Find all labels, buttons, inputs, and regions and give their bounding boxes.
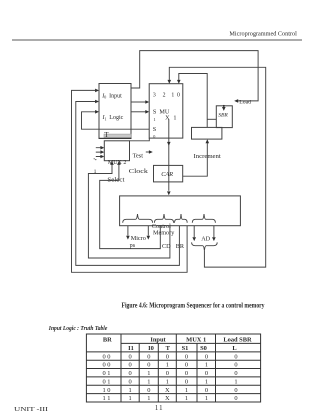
- svg-text:1 1: 1 1: [103, 395, 111, 402]
- svg-text:0: 0: [128, 353, 131, 360]
- wire BR bit feedback to input I0: [72, 90, 188, 272]
- arrowhead mid (below MUX1): [167, 142, 171, 146]
- svg-text:X: X: [165, 115, 170, 122]
- svg-text:I1: I1: [128, 345, 134, 352]
- horizontal lines: [121, 342, 261, 344]
- svg-text:Increment: Increment: [194, 153, 222, 160]
- incrementer box: [192, 127, 222, 139]
- svg-text:CAR: CAR: [161, 171, 173, 178]
- svg-text:T: T: [166, 345, 171, 352]
- svg-text:S: S: [153, 126, 157, 133]
- wire CD feedback to MUX2 select a: [88, 165, 169, 258]
- svg-text:0: 0: [166, 370, 169, 377]
- svg-text:1: 1: [147, 370, 150, 377]
- wire long select line with loop into input logic: [82, 112, 150, 129]
- CAR box: [154, 165, 183, 182]
- svg-text:0 0: 0 0: [103, 362, 111, 369]
- arrowhead up into incrementer: [206, 139, 210, 143]
- wire Load path (Input logic L output to SBR load): [131, 51, 258, 101]
- svg-text:1: 1: [185, 395, 188, 402]
- wire step MUX1 bottom-left to MUX2 top edge: [130, 138, 150, 141]
- header rule: [12, 39, 302, 41]
- svg-text:3: 3: [153, 93, 156, 99]
- svg-text:0: 0: [205, 387, 208, 394]
- brace CD field: [154, 214, 173, 223]
- svg-text:Test: Test: [133, 152, 144, 159]
- svg-text:1: 1: [128, 395, 131, 402]
- svg-text:Clock: Clock: [129, 168, 149, 175]
- svg-text:SBR: SBR: [218, 113, 228, 119]
- table header row 2: [128, 345, 236, 352]
- svg-text:0: 0: [185, 353, 188, 360]
- table header row 1: [103, 336, 252, 343]
- svg-text:0: 0: [128, 378, 131, 385]
- svg-text:1: 1: [205, 362, 208, 369]
- svg-text:0 1: 0 1: [103, 370, 111, 377]
- input logic box: [99, 84, 131, 139]
- svg-text:0: 0: [177, 93, 180, 99]
- svg-text:CD: CD: [162, 243, 171, 250]
- load arrowhead: [234, 99, 238, 103]
- svg-text:Microprogrammed Control: Microprogrammed Control: [229, 31, 297, 38]
- svg-text:BR: BR: [103, 336, 112, 343]
- svg-text:0: 0: [185, 378, 188, 385]
- svg-text:1: 1: [147, 378, 150, 385]
- brace AD field: [192, 214, 215, 223]
- svg-text:2: 2: [163, 93, 166, 99]
- SBR internal load arrow: [223, 106, 225, 107]
- svg-text:L: L: [232, 345, 236, 352]
- svg-text:0: 0: [147, 387, 150, 394]
- svg-text:Figure 4.6: Microprogram Seque: Figure 4.6: Microprogram Sequencer for a…: [122, 302, 265, 309]
- svg-text:0: 0: [147, 353, 150, 360]
- svg-text:0 0: 0 0: [103, 353, 111, 360]
- svg-text:1: 1: [94, 169, 97, 175]
- wire incrementer output to MUX1 input 0: [179, 74, 207, 128]
- svg-text:0: 0: [234, 370, 237, 377]
- svg-text:0: 0: [234, 395, 237, 402]
- brace BR field: [175, 214, 188, 223]
- svg-text:S: S: [153, 109, 157, 116]
- MUX2 box: [104, 141, 129, 161]
- svg-text:0: 0: [128, 370, 131, 377]
- svg-text:BR: BR: [176, 243, 185, 250]
- svg-text:0: 0: [234, 362, 237, 369]
- svg-text:0 1: 0 1: [103, 378, 111, 385]
- svg-text:S1: S1: [182, 345, 189, 352]
- grey band highlight: [104, 134, 131, 137]
- arrowhead into MUX1 input 0: [177, 80, 181, 84]
- svg-text:MUX 2: MUX 2: [108, 160, 127, 166]
- svg-text:I0: I0: [148, 345, 154, 352]
- svg-text:1: 1: [205, 395, 208, 402]
- svg-text:S0: S0: [200, 345, 207, 352]
- SBR box: [216, 106, 232, 128]
- svg-text:1: 1: [166, 378, 169, 385]
- svg-text:AD: AD: [201, 236, 210, 243]
- MUX1 box: [149, 84, 183, 138]
- svg-text:0: 0: [185, 370, 188, 377]
- svg-text:11: 11: [155, 405, 164, 412]
- svg-text:0: 0: [153, 134, 155, 139]
- control memory box: [120, 196, 241, 226]
- svg-text:1: 1: [171, 93, 174, 99]
- svg-text:Select: Select: [107, 176, 124, 183]
- svg-text:I0Input: I0Input: [101, 93, 122, 99]
- svg-text:0: 0: [205, 353, 208, 360]
- table grid: [86, 334, 260, 402]
- test arrow: [146, 151, 150, 153]
- arrowhead into control memory: [167, 191, 171, 195]
- svg-text:1 0: 1 0: [103, 387, 111, 394]
- svg-text:0: 0: [234, 353, 237, 360]
- wire CAR output to incrementer input: [183, 143, 208, 176]
- outer border: [86, 334, 260, 402]
- wire CD feedback to MUX2 select b: [100, 165, 161, 249]
- svg-text:Load: Load: [239, 99, 251, 105]
- svg-text:X: X: [165, 395, 170, 402]
- svg-text:Load SBR: Load SBR: [223, 336, 252, 343]
- svg-text:I1Logic: I1Logic: [102, 115, 124, 121]
- svg-text:1: 1: [166, 362, 169, 369]
- wire BR bit feedback to input I1: [76, 102, 180, 266]
- svg-text:MUX 1: MUX 1: [186, 336, 206, 343]
- svg-text:1: 1: [205, 378, 208, 385]
- svg-text:X: X: [165, 387, 170, 394]
- AD output arrows: [194, 226, 214, 238]
- svg-text:1: 1: [173, 115, 176, 122]
- svg-text:0: 0: [185, 362, 188, 369]
- svg-text:0: 0: [205, 370, 208, 377]
- svg-text:Memory: Memory: [153, 229, 175, 236]
- svg-text:1: 1: [185, 387, 188, 394]
- brace micro-ops field: [123, 214, 153, 223]
- svg-text:0: 0: [234, 387, 237, 394]
- svg-text:ps: ps: [130, 242, 136, 249]
- wire input-logic S1 to MUX1 select: [131, 101, 146, 103]
- svg-text:Input: Input: [150, 336, 166, 343]
- arrowhead into MUX1 input 1: [168, 80, 172, 84]
- svg-text:Micro: Micro: [131, 235, 146, 242]
- MUX2 status input stubs: [96, 148, 101, 157]
- svg-text:0: 0: [147, 362, 150, 369]
- svg-text:UNIT -III: UNIT -III: [14, 406, 48, 413]
- dots more-inputs mark: [94, 158, 95, 159]
- wire input-logic S0 to MUX1 select: [131, 111, 146, 113]
- vertical lines: [120, 334, 122, 402]
- wire branch incrementer output to SBR input: [207, 118, 216, 120]
- brace under AD: [192, 242, 218, 250]
- svg-text:T: T: [104, 131, 109, 139]
- svg-text:0: 0: [128, 362, 131, 369]
- svg-text:1: 1: [147, 395, 150, 402]
- micro-ops output arrows: [128, 226, 148, 236]
- table data rows: [103, 353, 238, 402]
- svg-text:1: 1: [128, 387, 131, 394]
- svg-text:Input Logic : Truth Table: Input Logic : Truth Table: [48, 325, 108, 332]
- wire MUX1 output through CAR to control memory: [168, 120, 170, 191]
- svg-text:1: 1: [154, 117, 156, 122]
- wire AD feedback to MUX1 input 1: [169, 67, 265, 267]
- svg-text:0: 0: [166, 353, 169, 360]
- svg-text:1: 1: [234, 378, 237, 385]
